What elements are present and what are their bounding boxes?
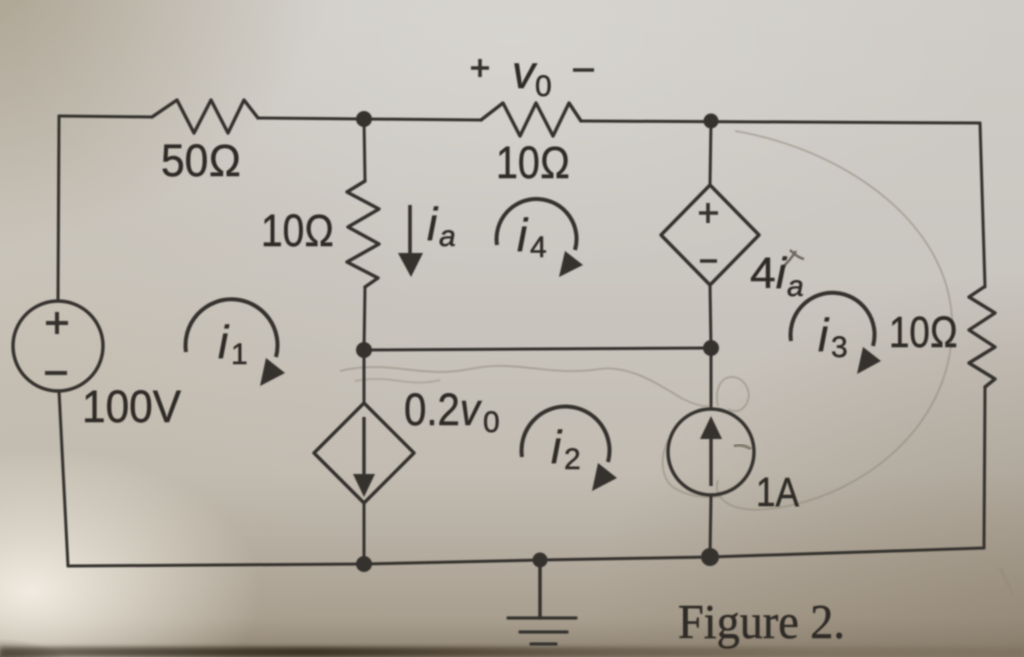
wire 1A to bottom xyxy=(710,495,711,557)
wire left lower xyxy=(59,391,68,566)
loop arrow i2 xyxy=(522,407,617,491)
svg-text:3: 3 xyxy=(831,331,848,364)
resistor 10Ω top zigzag xyxy=(481,103,581,136)
arrow ia xyxy=(398,205,423,277)
arrow inside 0.2v0 diamond xyxy=(353,417,375,497)
svg-text:4i: 4i xyxy=(750,249,787,298)
svg-text:50Ω: 50Ω xyxy=(161,135,241,186)
node dot top-A xyxy=(356,111,372,127)
wire mid node to 1A xyxy=(710,348,713,409)
svg-text:0: 0 xyxy=(483,406,500,439)
wire top-left horizontal xyxy=(59,116,152,117)
wire middle horizontal xyxy=(364,348,711,350)
svg-text:2: 2 xyxy=(564,443,581,476)
wire diamond to bottom node xyxy=(363,503,366,564)
loop arrow i1 xyxy=(186,299,285,386)
dependent source 0.2v0 diamond xyxy=(314,403,414,503)
wire right upper xyxy=(980,123,985,287)
pencil scribbles (unlabeled decorative) xyxy=(340,131,1013,594)
wire top right xyxy=(581,121,980,123)
node dot mid-A xyxy=(356,342,372,358)
resistor 10Ω right zigzag xyxy=(969,287,995,387)
node dot bottom-A xyxy=(356,556,372,572)
label +v0- plus xyxy=(471,59,489,77)
resistor 10Ω middle vertical zigzag xyxy=(347,181,379,287)
svg-text:100V: 100V xyxy=(82,381,181,432)
node dot mid-B xyxy=(703,340,719,356)
minus sign inside 100V source xyxy=(45,371,67,375)
wire node A down xyxy=(364,119,365,181)
svg-text:0: 0 xyxy=(535,70,552,103)
minus sign inside 4ia diamond xyxy=(700,259,717,263)
ground stem xyxy=(538,560,542,618)
svg-text:10Ω: 10Ω xyxy=(889,308,958,357)
svg-text:1A: 1A xyxy=(756,469,800,515)
svg-text:10Ω: 10Ω xyxy=(496,137,570,188)
dependent source 4ia diamond xyxy=(661,185,759,285)
ground bars xyxy=(508,618,576,644)
svg-text:i: i xyxy=(551,421,563,473)
wire node B down xyxy=(710,121,711,185)
wire middle branch lower xyxy=(364,287,365,350)
pencil check mark near 4ia xyxy=(782,250,804,268)
svg-text:4: 4 xyxy=(530,231,547,264)
resistor 50Ω zigzag xyxy=(152,100,258,133)
wire right lower xyxy=(984,387,985,548)
loop arrow i3 xyxy=(791,293,881,374)
svg-text:i: i xyxy=(427,198,439,250)
wire diamond to mid node xyxy=(710,285,711,348)
current source 1A circle xyxy=(668,409,754,495)
wire top middle xyxy=(258,118,481,120)
label +v0- minus xyxy=(573,68,594,72)
loop arrow i4 xyxy=(497,199,583,277)
voltage source 100V circle xyxy=(13,301,103,391)
small smudge in 1A circle (decorative) xyxy=(734,445,751,449)
svg-text:10Ω: 10Ω xyxy=(261,205,334,256)
svg-text:1: 1 xyxy=(231,338,248,371)
svg-text:Figure 2.: Figure 2. xyxy=(678,594,845,649)
svg-text:a: a xyxy=(787,270,804,303)
node dot bottom-B xyxy=(701,548,719,566)
arrow inside 1A source xyxy=(700,416,722,486)
wire bottom xyxy=(68,548,984,566)
svg-text:i: i xyxy=(517,209,529,261)
wire mid node to diamond xyxy=(363,350,366,403)
node dot ground xyxy=(533,553,548,568)
svg-text:a: a xyxy=(439,220,456,253)
plus sign inside 100V source xyxy=(46,312,68,334)
svg-text:0.2v: 0.2v xyxy=(404,384,482,435)
node dot top-B xyxy=(704,114,719,129)
svg-text:i: i xyxy=(218,316,230,368)
wire left upper xyxy=(58,116,59,301)
svg-text:i: i xyxy=(818,309,830,361)
plus sign inside 4ia diamond xyxy=(699,203,718,223)
